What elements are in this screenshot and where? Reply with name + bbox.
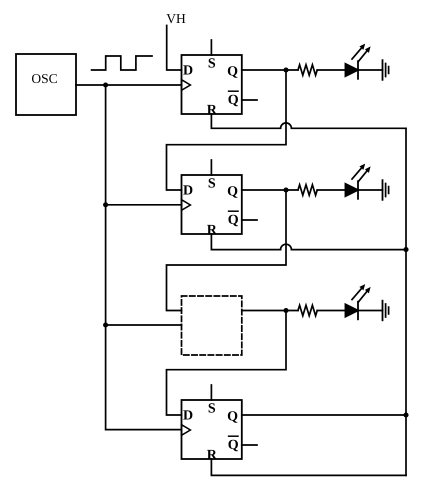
LED D2 light arrow 1: [352, 168, 361, 179]
wire U2 R pin to right bus (hop over crossing): [211, 234, 406, 250]
clock pin triangle U1: [182, 80, 191, 91]
wire LED D3 to ground: [358, 310, 383, 312]
wire Q1 output to resistor R1: [242, 69, 298, 71]
svg-text:D: D: [183, 184, 193, 199]
wire left clock bus: [106, 85, 182, 430]
pin Qbar stub U2: [242, 219, 257, 221]
wire LED D1 to ground: [358, 69, 383, 71]
svg-text:Q: Q: [227, 184, 238, 199]
wire LED D2 to ground: [358, 189, 383, 191]
flip-flop U3 placeholder (dashed box): [182, 296, 242, 355]
ground symbol row 1: [383, 60, 389, 80]
svg-text:S: S: [208, 57, 216, 72]
resistor R3: [298, 305, 317, 315]
pin Qbar stub U1: [242, 99, 257, 101]
wire OSC output to U1 clock: [76, 84, 182, 86]
clock pin triangle U4: [182, 425, 191, 436]
LED D1: [345, 44, 370, 79]
junction left bus at OSC output: [103, 82, 108, 87]
resistor R1: [298, 65, 317, 75]
junction node Q3: [283, 308, 288, 313]
svg-text:OSC: OSC: [31, 71, 57, 86]
wire U4 R pin to right bus: [211, 459, 406, 475]
wire resistor R2 to LED D2: [317, 189, 345, 191]
LED D1 light arrow 1: [352, 48, 361, 59]
flip-flop U1: [182, 40, 258, 118]
oscillator OSC: [16, 54, 76, 115]
wire right reset bus: [405, 128, 407, 475]
wire VH to U1 D input: [167, 26, 182, 71]
svg-text:Q: Q: [228, 93, 239, 108]
svg-text:Q: Q: [228, 213, 239, 228]
wire Q3 output to resistor R3: [242, 310, 298, 312]
LED D1 light arrow 2: [358, 51, 366, 61]
svg-text:D: D: [183, 409, 193, 424]
svg-text:S: S: [208, 402, 216, 417]
wire left bus to U2 clock: [106, 204, 182, 206]
ground symbol row 2: [383, 180, 389, 200]
LED D3 light arrow 1: [352, 289, 361, 300]
pin S stub U4: [210, 385, 212, 400]
LED D2: [345, 164, 370, 199]
pin Qbar stub U4: [242, 444, 257, 446]
wire resistor R3 to LED D3: [317, 310, 345, 312]
svg-text:D: D: [183, 64, 193, 79]
svg-text:VH: VH: [166, 11, 186, 26]
pin S stub U2: [210, 160, 212, 175]
junction node Q1: [283, 67, 288, 72]
wire U4 Q output to right bus: [242, 414, 406, 416]
clock waveform symbol: [92, 56, 152, 70]
ground symbol row 3: [383, 301, 389, 321]
wire U1 R pin to right bus (hop over crossing): [211, 114, 406, 128]
LED D3 light arrow 2: [358, 292, 366, 302]
svg-text:Q: Q: [228, 438, 239, 453]
junction node Q2: [283, 187, 288, 192]
clock pin triangle U2: [182, 200, 191, 211]
junction right bus row 2: [403, 247, 408, 252]
wire Q1 feedback to D input of stage 2: [167, 70, 287, 190]
wire Q2 feedback to D input of stage 3: [167, 190, 287, 311]
junction left bus row 2: [103, 202, 108, 207]
resistor R2: [298, 185, 317, 195]
flip-flop U2: [182, 160, 258, 238]
LED D3: [345, 284, 370, 319]
svg-text:S: S: [208, 177, 216, 192]
junction right bus at U4 Q: [403, 412, 408, 417]
svg-text:Q: Q: [227, 64, 238, 79]
LED D2 light arrow 2: [358, 171, 366, 181]
wire Q3 feedback to D input of stage 4: [167, 311, 287, 416]
junction left bus row 3: [103, 322, 108, 327]
wire left bus to U3 clock: [106, 324, 182, 326]
pin S stub U1: [210, 40, 212, 55]
svg-text:Q: Q: [227, 409, 238, 424]
wire resistor R1 to LED D1: [317, 69, 345, 71]
flip-flop U4: [182, 385, 258, 463]
wire Q2 output to resistor R2: [242, 189, 298, 191]
